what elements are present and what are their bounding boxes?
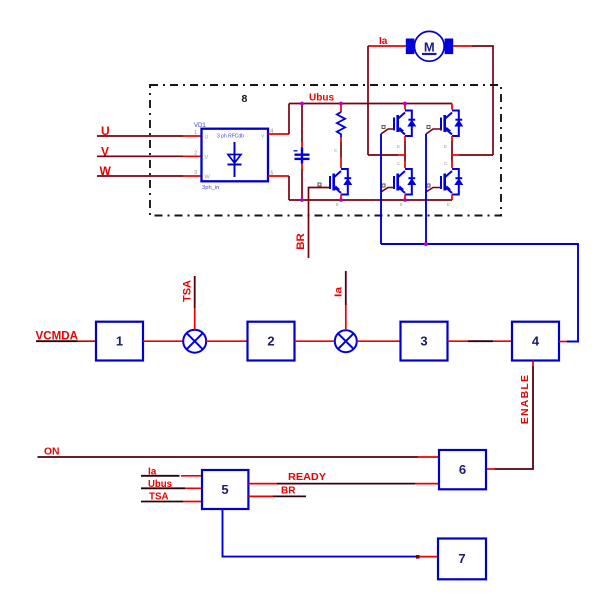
wire brake emitter stub — [340, 195, 342, 201]
svg-text:6: 6 — [459, 462, 466, 477]
wire pin4 riser — [288, 104, 290, 135]
svg-text:2: 2 — [194, 150, 197, 156]
wire block3 to block4 — [448, 340, 513, 342]
svg-text:3ph_in: 3ph_in — [202, 185, 219, 191]
gate hook lower-left — [381, 188, 394, 193]
wire motor left red — [368, 45, 407, 47]
svg-text:1: 1 — [116, 334, 123, 349]
svg-text:BR: BR — [281, 486, 296, 497]
svg-text:v: v — [261, 134, 264, 140]
wire U phase — [97, 135, 202, 137]
wire motor right tap — [452, 154, 493, 156]
svg-text:BR: BR — [295, 233, 307, 250]
wire left leg emitter stub — [404, 195, 406, 201]
gate hook lower-right — [426, 188, 441, 193]
wire block2 to mult2 — [295, 340, 336, 342]
svg-text:E: E — [336, 202, 339, 207]
svg-text:VD1: VD1 — [194, 123, 206, 129]
block 3 — [401, 322, 448, 361]
wire mult2 to block3 — [357, 340, 401, 342]
svg-text:E: E — [447, 202, 450, 207]
wire pin5 dropper — [288, 176, 290, 200]
multiplier X2 — [335, 330, 357, 352]
wire mult1 to block2 — [206, 340, 247, 342]
transistor V2 upper-left — [394, 111, 415, 137]
svg-text:Ubus: Ubus — [309, 93, 334, 104]
junction bottom cap — [300, 198, 304, 202]
svg-text:E: E — [400, 202, 403, 207]
svg-text:U: U — [205, 135, 209, 141]
svg-text:2: 2 — [267, 334, 274, 349]
dashed enclosure — [150, 85, 501, 216]
block 6 — [439, 450, 486, 489]
wire motor left tap — [368, 154, 405, 156]
junction bus cap — [300, 102, 304, 106]
junction bottom brake — [339, 198, 343, 202]
junction bottom left leg — [403, 198, 407, 202]
svg-text:ON: ON — [44, 446, 60, 458]
wire block5 to block7 blue — [223, 509, 419, 557]
wire motor right maroon to corner — [472, 46, 493, 155]
wire TSA drop — [194, 276, 196, 330]
wire block1 to mult1 — [143, 340, 183, 342]
wire Ubus to block5 — [141, 487, 202, 489]
wire motor right red — [453, 45, 473, 47]
wire block4 right stub — [559, 341, 567, 343]
svg-text:5: 5 — [221, 482, 228, 497]
brake transistor V1 — [330, 169, 351, 195]
capacitor C1 — [294, 148, 310, 164]
svg-text:E: E — [397, 144, 400, 149]
blue gate line left — [380, 134, 382, 244]
svg-text:E: E — [444, 144, 447, 149]
wire left leg collector stub — [404, 104, 406, 110]
wire motor left vertical maroon — [367, 46, 369, 155]
svg-text:3 ph RFCdb: 3 ph RFCdb — [217, 134, 244, 140]
svg-text:4: 4 — [532, 334, 540, 349]
wire W phase — [97, 175, 202, 177]
junction bus resistor — [339, 102, 343, 106]
wire BR stub — [248, 495, 306, 497]
junction pin block7 — [416, 555, 420, 559]
svg-text:8: 8 — [242, 93, 248, 105]
wire VCMDA to block1 — [36, 340, 96, 342]
capacitor C1 branch wires — [301, 104, 303, 201]
wire ENABLE — [486, 361, 533, 470]
svg-text:Ia: Ia — [379, 36, 388, 47]
wire brake gate / BR line — [309, 188, 331, 259]
junction bus left leg — [403, 102, 407, 106]
block 7 — [438, 539, 486, 580]
wire READY block5 to block6 — [248, 483, 439, 485]
rectifier VD1 — [194, 123, 274, 191]
svg-text:Ia: Ia — [334, 286, 345, 297]
wire right leg mid — [451, 136, 453, 168]
wire TSA to block5 — [141, 501, 202, 503]
gate hook upper-left — [381, 129, 394, 134]
wire V phase — [97, 155, 202, 157]
resistor R1 branch wires — [340, 104, 342, 169]
transistor V4 lower-left — [394, 169, 415, 195]
wire right leg emitter stub — [451, 195, 453, 201]
wire rectifier out pin5 — [268, 175, 289, 177]
pin texts small grey — [334, 144, 450, 207]
block 2 — [248, 322, 295, 361]
transistor V5 lower-right — [441, 169, 462, 195]
svg-text:READY: READY — [288, 471, 326, 483]
wire rectifier out pin4 — [268, 133, 289, 135]
blue gate line right — [425, 134, 427, 244]
svg-text:3: 3 — [194, 170, 197, 176]
gate hook upper-right — [426, 129, 441, 134]
svg-text:3: 3 — [420, 334, 427, 349]
junction gate lines — [424, 242, 428, 246]
resistor R1 — [337, 112, 345, 137]
wire red stub to block7 — [419, 556, 438, 558]
svg-text:V: V — [205, 155, 209, 161]
wire right leg collector stub — [451, 104, 453, 110]
multiplier X1 — [183, 330, 206, 353]
block 1 — [96, 322, 143, 361]
motor M1 — [406, 31, 453, 61]
svg-text:W: W — [205, 175, 211, 181]
svg-text:M: M — [424, 40, 435, 55]
block 5 — [202, 470, 248, 509]
wire Ubus top bus — [289, 103, 452, 105]
diode glyph inside VD1 — [228, 142, 242, 177]
wire left leg mid — [404, 136, 406, 168]
gate pin marks — [318, 126, 430, 188]
wire Ia drop — [345, 271, 347, 330]
svg-text:1: 1 — [194, 130, 197, 136]
svg-text:ENABLE: ENABLE — [519, 374, 531, 424]
transistor V3 upper-right — [441, 111, 462, 137]
wire ON to block6 — [38, 456, 440, 458]
block 4 — [512, 322, 559, 361]
svg-text:TSA: TSA — [182, 280, 194, 302]
wire bottom bus — [289, 199, 452, 201]
wire Ia to block5 — [141, 475, 202, 477]
blue feedback run to block 4 — [381, 244, 578, 342]
svg-text:7: 7 — [458, 551, 465, 566]
